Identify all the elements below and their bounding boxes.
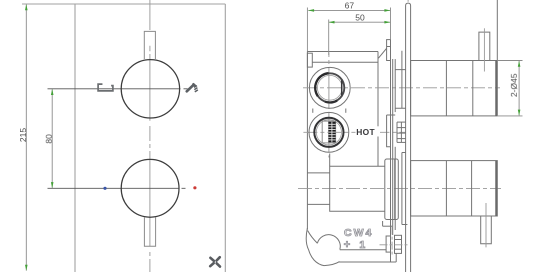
svg-text:1: 1 xyxy=(359,239,365,251)
wire elbow branch to cusp xyxy=(308,231,318,244)
node centerline hot port xyxy=(303,131,405,133)
wire body top edge xyxy=(307,51,378,53)
dim 50 xyxy=(329,21,391,23)
dim 215 line xyxy=(25,5,27,271)
node lower stem centerline xyxy=(485,203,487,247)
wire rear tab top xyxy=(387,40,391,61)
wire outlet pipe bottom xyxy=(339,261,397,263)
wire top-left tab xyxy=(307,53,312,67)
handle lower rect xyxy=(411,161,498,216)
wire step lines to body xyxy=(307,172,329,174)
svg-text:2-Ø45: 2-Ø45 xyxy=(509,73,519,97)
node horizontal centerline lower knob xyxy=(48,187,186,189)
port upper outer circle xyxy=(309,67,350,108)
svg-text:215: 215 xyxy=(18,128,28,142)
icon bracket left of upper knob xyxy=(98,83,113,91)
wire hot inlet fitting xyxy=(397,122,406,142)
port upper flat xyxy=(341,80,343,95)
dim 67 xyxy=(308,9,390,11)
node upper stem centerline xyxy=(483,28,485,71)
wire plate boss lower xyxy=(402,153,408,225)
handle upper rect xyxy=(411,61,498,116)
wire panel right edge xyxy=(224,4,226,272)
wire chamfer gusset xyxy=(378,48,386,58)
knob circle upper xyxy=(121,60,179,118)
knob circle lower xyxy=(121,159,179,217)
svg-text:CW4: CW4 xyxy=(344,227,373,239)
node bolt h centerline xyxy=(380,244,410,246)
node horizontal centerline upper knob xyxy=(48,88,188,90)
wire waist connectors xyxy=(312,109,314,113)
dim 80 line xyxy=(51,89,53,188)
wire panel left edge xyxy=(74,4,76,272)
wire panel top edge xyxy=(22,3,225,5)
port hot slot dark block xyxy=(328,122,335,143)
wire elbow dome xyxy=(317,235,340,250)
wire boss top line xyxy=(312,61,378,63)
dim 2-d45 xyxy=(498,60,523,62)
node plate centerline tick xyxy=(407,0,409,2)
wire body left edge xyxy=(306,52,308,230)
wall plate xyxy=(406,3,411,272)
port upper dark ring xyxy=(315,73,344,102)
wire bracket step xyxy=(387,115,396,147)
node bolt v centerline xyxy=(391,227,393,255)
node red hot dot xyxy=(193,186,196,189)
node vertical centerline front view xyxy=(149,0,151,272)
icon shower spray right of upper knob xyxy=(187,84,198,92)
node centerline upper port xyxy=(303,87,500,89)
wire outlet pipe top xyxy=(340,249,386,251)
handle upper stem xyxy=(479,32,490,60)
node centerline lower assembly xyxy=(298,187,501,189)
bolt lower fixing xyxy=(383,221,402,253)
wire dark bracket upper xyxy=(394,59,396,112)
svg-text:80: 80 xyxy=(44,134,54,144)
wire lower housing xyxy=(330,166,385,211)
svg-text:67: 67 xyxy=(345,1,355,11)
label HOT xyxy=(356,126,381,136)
wire extension line top right xyxy=(496,0,498,60)
wire housing neck xyxy=(329,154,331,167)
handle lower stem xyxy=(481,216,492,244)
svg-text:HOT: HOT xyxy=(356,127,375,137)
wire dark bracket lower xyxy=(394,147,396,230)
wire elbow outer xyxy=(306,228,339,266)
port hot slot outline xyxy=(322,121,335,143)
wire plate boss upper xyxy=(395,51,405,109)
node blue cold dot xyxy=(103,187,106,190)
wire flange line a xyxy=(390,47,392,255)
svg-text:50: 50 xyxy=(355,13,365,23)
wire flange line b xyxy=(392,59,394,235)
wire lower stem xyxy=(144,218,155,247)
wire lower flange plate xyxy=(385,159,399,220)
wire body right edge xyxy=(377,52,379,167)
port hot dark ring xyxy=(314,118,343,147)
node vertical centerline ports xyxy=(328,53,330,158)
svg-text:+: + xyxy=(344,239,350,251)
wire upper stem xyxy=(144,31,155,59)
port hot outer circle xyxy=(309,112,349,152)
logo X crosswater xyxy=(210,257,220,266)
